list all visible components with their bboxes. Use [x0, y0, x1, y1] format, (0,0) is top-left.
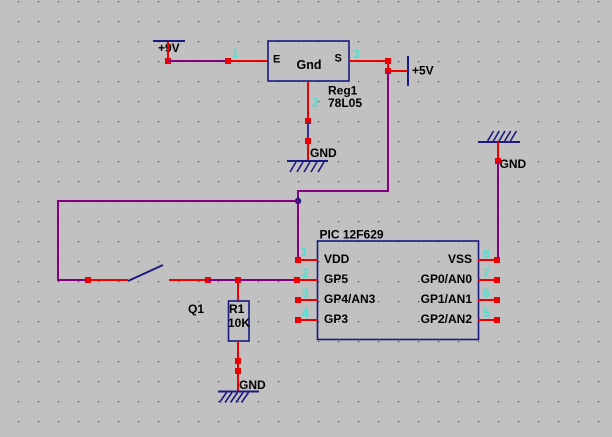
- svg-text:8: 8: [483, 247, 490, 261]
- svg-text:GND: GND: [500, 157, 527, 171]
- wire to switch contact: [88, 279, 128, 281]
- svg-text:Gnd: Gnd: [297, 58, 322, 72]
- svg-text:GP0/AN0: GP0/AN0: [421, 272, 473, 286]
- resistor R1: [229, 280, 250, 361]
- junction +9V feed: [165, 58, 171, 64]
- junction R1 top node: [235, 277, 241, 283]
- junction pin 1: [295, 257, 301, 263]
- wire +9V to Reg1 pin 1: [168, 60, 228, 62]
- wire VDD junction down to pin 1 (purple): [297, 201, 299, 260]
- svg-text:5: 5: [483, 306, 490, 320]
- wire switch right terminal: [169, 279, 208, 281]
- switch Q1 blade: [128, 265, 163, 281]
- junction +5V tap: [385, 68, 391, 74]
- wire Reg1 S output: [349, 60, 388, 62]
- wire to ground symbol: [307, 141, 309, 161]
- svg-text:2: 2: [302, 266, 309, 280]
- junction pin 2: [294, 277, 300, 283]
- ground GND top right (flipped): [478, 131, 527, 171]
- junction switch left terminal: [85, 277, 91, 283]
- junction pin 8: [494, 257, 500, 263]
- junction pin 4: [295, 317, 301, 323]
- power symbol +9V: [153, 41, 185, 61]
- junction below top-right GND: [495, 158, 501, 164]
- svg-text:7: 7: [483, 266, 490, 280]
- junction pin 5: [494, 317, 500, 323]
- svg-text:3: 3: [353, 47, 360, 61]
- svg-text:GP2/AN2: GP2/AN2: [421, 312, 473, 326]
- svg-text:E: E: [273, 53, 280, 65]
- svg-text:2: 2: [312, 96, 319, 110]
- wire to +5V symbol: [388, 70, 408, 72]
- svg-text:1: 1: [232, 46, 239, 60]
- junction: [205, 277, 211, 283]
- junction Reg1 pin 1: [225, 58, 231, 64]
- svg-text:3: 3: [302, 286, 309, 300]
- junction pin 6: [494, 297, 500, 303]
- svg-text:78L05: 78L05: [328, 96, 362, 110]
- pin 2 stub GP5: [297, 279, 318, 281]
- wire S junction down: [387, 61, 389, 71]
- ground GND below regulator: [287, 146, 337, 172]
- wire GND to VSS (purple): [497, 161, 499, 260]
- wire +5V rail down and left (purple): [298, 71, 388, 201]
- junction dot VDD net: [295, 198, 301, 204]
- svg-text:VSS: VSS: [448, 252, 472, 266]
- svg-text:GND: GND: [310, 146, 337, 160]
- regulator Reg1 78L05 body: [268, 41, 349, 81]
- wire pin 1 stub to Reg1 E: [228, 60, 268, 62]
- svg-text:GP1/AN1: GP1/AN1: [421, 292, 473, 306]
- pin 3 stub GP4/AN3: [298, 299, 318, 301]
- pin 5 stub GP2/AN2: [478, 319, 498, 321]
- junction S output: [385, 58, 391, 64]
- svg-text:1: 1: [301, 245, 308, 259]
- svg-text:10K: 10K: [228, 316, 250, 330]
- svg-text:S: S: [335, 53, 342, 65]
- svg-text:4: 4: [302, 306, 309, 320]
- pin 6 stub GP1/AN1: [478, 299, 498, 301]
- svg-text:GND: GND: [239, 378, 266, 392]
- junction ground node: [235, 368, 241, 374]
- power symbol +5V: [408, 56, 434, 86]
- pin 4 stub GP3: [298, 319, 318, 321]
- wire VDD net left loop: [58, 201, 298, 280]
- pin 1 stub VDD: [298, 259, 318, 261]
- svg-text:PIC 12F629: PIC 12F629: [320, 228, 384, 242]
- svg-text:GP5: GP5: [324, 272, 348, 286]
- svg-text:GP4/AN3: GP4/AN3: [324, 292, 376, 306]
- wire R1 node to GP5 (purple): [238, 279, 297, 281]
- wire down to ground symbol: [237, 371, 239, 391]
- junction pin 3: [295, 297, 301, 303]
- svg-text:6: 6: [483, 286, 490, 300]
- svg-text:VDD: VDD: [324, 252, 350, 266]
- junction Reg1 gnd b: [305, 138, 311, 144]
- pin 7 stub GP0/AN0: [478, 279, 498, 281]
- pin 8 stub VSS: [478, 259, 498, 261]
- ground GND below R1: [218, 378, 266, 403]
- IC PIC 12F629: [318, 228, 479, 340]
- svg-text:Q1: Q1: [188, 302, 204, 316]
- junction R1 bottom: [235, 358, 241, 364]
- junction Reg1 gnd a: [305, 118, 311, 124]
- svg-text:+5V: +5V: [412, 64, 434, 78]
- regulator Gnd pin wire: [307, 81, 309, 121]
- svg-text:GP3: GP3: [324, 312, 348, 326]
- junction pin 7: [494, 277, 500, 283]
- wire R1 to ground node: [237, 361, 239, 371]
- wire junction to R1 node (purple): [208, 279, 238, 281]
- wire gnd segment: [307, 121, 309, 141]
- svg-text:R1: R1: [229, 302, 245, 316]
